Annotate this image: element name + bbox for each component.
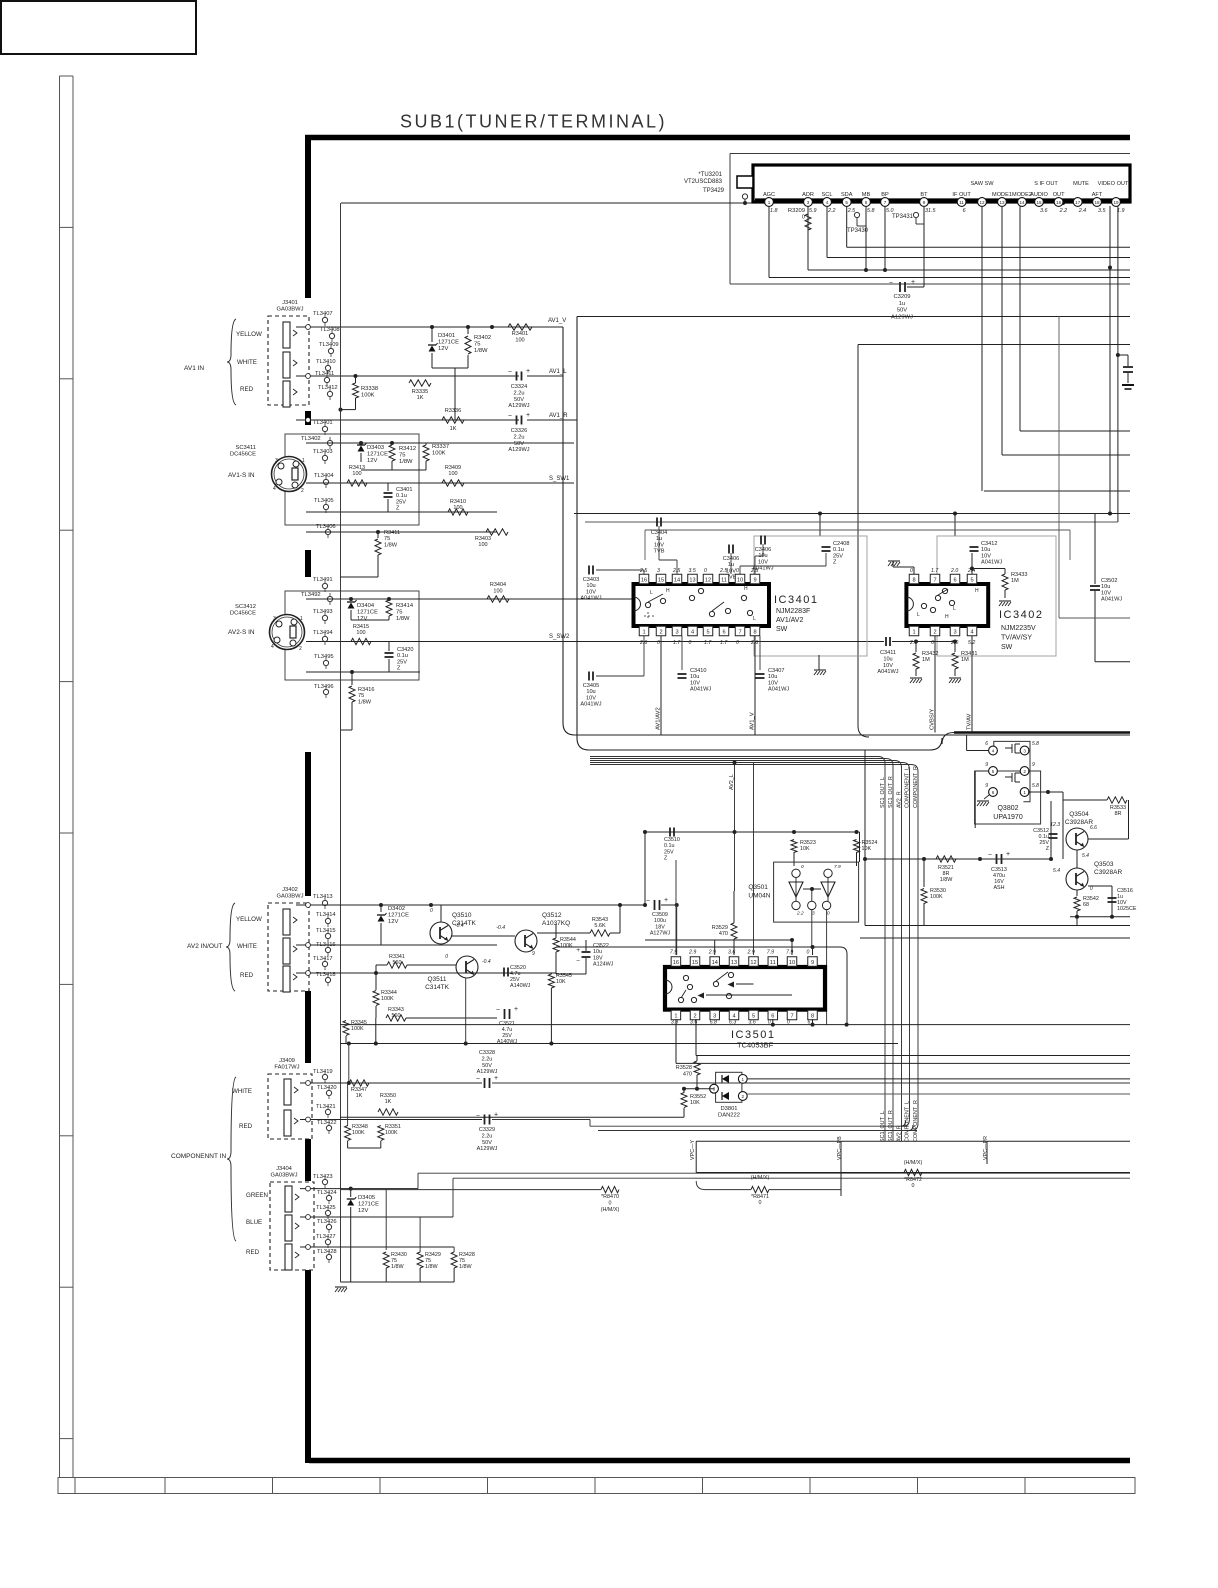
svg-text:10V: 10V (1101, 590, 1111, 596)
svg-text:YELLOW: YELLOW (236, 331, 262, 338)
svg-text:75: 75 (358, 693, 364, 699)
svg-text:IC3402: IC3402 (999, 609, 1043, 621)
svg-text:3: 3 (1023, 748, 1026, 753)
svg-text:1K: 1K (356, 1093, 363, 1099)
svg-text:7: 7 (933, 577, 936, 583)
svg-text:0: 0 (445, 954, 448, 960)
svg-text:TP3431: TP3431 (892, 214, 914, 220)
svg-text:Z: Z (396, 506, 400, 512)
svg-text:1/8W: 1/8W (396, 616, 410, 622)
svg-text:10u: 10u (981, 547, 990, 553)
svg-text:TL3422: TL3422 (317, 1120, 337, 1126)
svg-text:C3509: C3509 (652, 912, 668, 918)
svg-text:10V: 10V (981, 553, 991, 559)
svg-text:TL3404: TL3404 (314, 473, 334, 479)
svg-text:D3401: D3401 (438, 333, 455, 339)
svg-text:2.4: 2.4 (1078, 208, 1087, 214)
svg-text:9: 9 (985, 762, 988, 768)
svg-text:1/8W: 1/8W (459, 1264, 472, 1270)
svg-text:0: 0 (912, 1183, 915, 1189)
svg-text:0.1u: 0.1u (396, 493, 407, 499)
svg-text:5: 5 (992, 769, 995, 774)
svg-text:75: 75 (399, 453, 405, 459)
svg-text:C3411: C3411 (880, 650, 896, 656)
svg-text:WHITE: WHITE (237, 359, 257, 366)
svg-text:12V: 12V (367, 458, 377, 464)
svg-text:Q3512: Q3512 (542, 912, 562, 919)
svg-text:4: 4 (970, 629, 973, 635)
svg-text:2.2: 2.2 (827, 208, 836, 214)
svg-text:12: 12 (750, 960, 756, 966)
svg-text:R3335: R3335 (412, 389, 428, 395)
svg-text:VT2USCD883: VT2USCD883 (684, 179, 723, 185)
svg-text:A129WJ: A129WJ (477, 1069, 498, 1075)
svg-text:C2408: C2408 (833, 541, 849, 547)
svg-text:0: 0 (759, 1200, 762, 1206)
svg-text:VPC—PB: VPC—PB (837, 1136, 843, 1160)
svg-text:16: 16 (673, 960, 679, 966)
svg-text:25V: 25V (397, 659, 407, 665)
svg-text:COMPONENNT IN: COMPONENNT IN (171, 1153, 226, 1160)
svg-text:TL3421: TL3421 (316, 1104, 336, 1110)
svg-text:TP3430: TP3430 (847, 228, 869, 234)
svg-text:13: 13 (731, 960, 737, 966)
svg-text:1K: 1K (450, 426, 457, 432)
svg-text:TL3405: TL3405 (314, 498, 334, 504)
svg-text:12: 12 (705, 577, 711, 583)
svg-text:6: 6 (771, 1013, 774, 1019)
svg-text:COMPONENT_R: COMPONENT_R (913, 1100, 919, 1142)
svg-text:RED: RED (239, 1123, 253, 1130)
svg-text:+: + (526, 368, 530, 375)
svg-text:C3510: C3510 (664, 837, 680, 843)
svg-text:5.8: 5.8 (1032, 783, 1039, 789)
svg-text:0: 0 (827, 911, 830, 917)
svg-text:100K: 100K (432, 451, 446, 457)
svg-text:75: 75 (396, 610, 402, 616)
svg-text:75: 75 (474, 342, 480, 348)
svg-text:SW: SW (1001, 644, 1013, 651)
svg-text:19: 19 (1113, 200, 1119, 205)
svg-text:6: 6 (722, 629, 725, 635)
svg-text:AV2_R: AV2_R (896, 791, 902, 808)
svg-text:100K: 100K (381, 996, 394, 1002)
svg-text:5: 5 (845, 200, 848, 205)
svg-text:1M: 1M (922, 657, 930, 663)
svg-text:R3433: R3433 (1011, 572, 1027, 578)
svg-text:−: − (889, 280, 893, 287)
svg-text:7: 7 (738, 629, 741, 635)
svg-text:A041WJ: A041WJ (877, 669, 898, 675)
svg-text:5: 5 (752, 1013, 755, 1019)
svg-text:2.2u: 2.2u (514, 390, 525, 396)
svg-text:3.5: 3.5 (1098, 208, 1106, 214)
svg-text:1.7: 1.7 (704, 640, 712, 646)
svg-text:12.3: 12.3 (1050, 822, 1060, 828)
svg-text:1271CE: 1271CE (438, 340, 459, 346)
svg-text:−: − (496, 1007, 500, 1014)
svg-text:SC1_OUT_R: SC1_OUT_R (888, 776, 894, 808)
svg-text:1/8W: 1/8W (358, 699, 372, 705)
svg-text:C3324: C3324 (511, 384, 527, 390)
svg-text:*TU3201: *TU3201 (698, 172, 722, 178)
svg-text:100K: 100K (930, 894, 943, 900)
svg-text:R3543: R3543 (592, 917, 608, 923)
svg-text:TL3417: TL3417 (313, 956, 333, 962)
svg-text:SUB1(TUNER/TERMINAL): SUB1(TUNER/TERMINAL) (400, 112, 667, 132)
svg-text:2.5: 2.5 (672, 568, 680, 574)
svg-text:2: 2 (933, 629, 936, 635)
svg-text:J3402: J3402 (282, 887, 298, 893)
svg-text:10V: 10V (690, 680, 700, 686)
svg-text:50V: 50V (482, 1140, 492, 1146)
svg-text:12V: 12V (358, 1208, 368, 1214)
svg-text:Q3510: Q3510 (452, 912, 472, 919)
svg-text:AV1-S IN: AV1-S IN (228, 472, 255, 479)
svg-text:2.5: 2.5 (750, 568, 758, 574)
svg-text:SAW SW: SAW SW (970, 181, 994, 187)
svg-text:0: 0 (802, 215, 805, 221)
svg-text:10u: 10u (586, 583, 595, 589)
svg-text:BT: BT (920, 192, 928, 198)
svg-text:9: 9 (1032, 762, 1035, 768)
svg-text:+: + (911, 279, 915, 286)
svg-text:TL3494: TL3494 (313, 630, 333, 636)
svg-text:D3404: D3404 (357, 603, 375, 609)
svg-text:R3432: R3432 (922, 651, 938, 657)
svg-text:2.6: 2.6 (639, 640, 647, 646)
svg-text:CVBS/Y: CVBS/Y (930, 709, 936, 730)
svg-text:1M: 1M (961, 657, 969, 663)
svg-text:10u: 10u (883, 656, 892, 662)
svg-text:A129WJ: A129WJ (477, 1146, 498, 1152)
svg-text:12V: 12V (357, 616, 367, 622)
svg-text:25V: 25V (396, 499, 406, 505)
svg-text:TV/AV: TV/AV (967, 714, 973, 730)
svg-text:TL3491: TL3491 (313, 577, 333, 583)
svg-text:TL3496: TL3496 (314, 684, 334, 690)
svg-text:AV1 IN: AV1 IN (184, 365, 204, 372)
svg-text:1: 1 (1023, 790, 1026, 795)
svg-text:5: 5 (706, 629, 709, 635)
svg-text:470: 470 (719, 931, 728, 937)
svg-text:1271CE: 1271CE (358, 1202, 379, 1208)
svg-text:TL3423: TL3423 (313, 1174, 333, 1180)
svg-text:8: 8 (753, 629, 756, 635)
svg-text:R3552: R3552 (690, 1094, 706, 1100)
svg-text:0: 0 (801, 864, 804, 870)
svg-text:10: 10 (737, 577, 743, 583)
svg-text:75: 75 (384, 536, 390, 542)
svg-text:MODE2: MODE2 (1012, 192, 1032, 198)
svg-text:TL3425: TL3425 (316, 1205, 336, 1211)
svg-text:VPC—PR: VPC—PR (983, 1136, 989, 1160)
svg-text:A129WJ: A129WJ (508, 447, 529, 453)
svg-text:R3404: R3404 (490, 582, 506, 588)
svg-text:R3412: R3412 (399, 446, 416, 452)
svg-text:0: 0 (657, 640, 660, 646)
svg-text:TP3429: TP3429 (703, 188, 725, 194)
svg-text:100: 100 (478, 542, 487, 548)
svg-text:10V: 10V (586, 695, 596, 701)
svg-text:10u: 10u (768, 674, 777, 680)
svg-text:AV2-S IN: AV2-S IN (228, 629, 255, 636)
svg-text:11: 11 (959, 200, 964, 205)
svg-text:SC1_OUT_L: SC1_OUT_L (880, 777, 886, 808)
svg-text:3: 3 (807, 200, 810, 205)
svg-text:5.4: 5.4 (1082, 853, 1089, 859)
svg-text:4: 4 (992, 748, 995, 753)
svg-text:R3416: R3416 (358, 687, 374, 693)
svg-text:A129WJ: A129WJ (891, 314, 913, 320)
svg-text:L: L (753, 616, 756, 622)
svg-text:2.5: 2.5 (719, 568, 727, 574)
svg-text:3.6: 3.6 (1040, 208, 1048, 214)
svg-text:H: H (975, 588, 979, 594)
svg-text:GA03BWJ: GA03BWJ (276, 307, 303, 313)
svg-text:R3401: R3401 (512, 331, 528, 337)
svg-text:10V: 10V (883, 663, 893, 669)
svg-text:C3502: C3502 (1101, 578, 1117, 584)
svg-text:H: H (744, 586, 748, 592)
svg-text:0: 0 (807, 950, 810, 956)
svg-text:MB: MB (862, 192, 871, 198)
svg-text:D3403: D3403 (367, 445, 384, 451)
svg-text:RED: RED (240, 386, 254, 393)
svg-text:+: + (526, 412, 530, 419)
svg-text:1/8W: 1/8W (940, 877, 953, 883)
svg-text:AV2_R: AV2_R (896, 1125, 902, 1142)
svg-text:2.2: 2.2 (796, 911, 804, 917)
svg-text:0: 0 (689, 640, 692, 646)
svg-text:A041WJ: A041WJ (690, 687, 711, 693)
svg-text:11: 11 (721, 577, 727, 583)
svg-text:AGC: AGC (763, 192, 775, 198)
svg-text:S_SW1: S_SW1 (549, 476, 570, 482)
svg-text:A140WJ: A140WJ (510, 983, 531, 989)
svg-text:TL3415: TL3415 (316, 928, 336, 934)
svg-text:0.1u: 0.1u (397, 653, 408, 659)
svg-text:J3409: J3409 (279, 1058, 295, 1064)
svg-text:Z: Z (397, 666, 401, 672)
svg-text:10V: 10V (758, 559, 768, 565)
svg-text:12: 12 (979, 200, 985, 205)
svg-text:AV1_L: AV1_L (549, 369, 567, 375)
svg-text:J3404: J3404 (276, 1166, 293, 1172)
svg-text:R3336: R3336 (445, 408, 461, 414)
svg-text:UPA1970: UPA1970 (993, 814, 1023, 821)
svg-text:R3414: R3414 (396, 603, 414, 609)
svg-text:TL3414: TL3414 (316, 912, 336, 918)
svg-text:DC456CE: DC456CE (230, 611, 256, 617)
svg-text:1K: 1K (385, 1099, 392, 1105)
svg-text:560: 560 (393, 960, 402, 966)
svg-text:RED: RED (246, 1249, 260, 1256)
svg-text:3: 3 (273, 616, 276, 622)
svg-text:5.8: 5.8 (867, 208, 875, 214)
svg-text:16: 16 (1056, 200, 1062, 205)
svg-text:TL3406: TL3406 (316, 524, 336, 530)
svg-text:2.2u: 2.2u (482, 1133, 493, 1139)
svg-text:C3405: C3405 (583, 683, 599, 689)
svg-text:DC456CE: DC456CE (230, 452, 256, 458)
svg-text:-0.4: -0.4 (455, 923, 464, 929)
svg-text:6: 6 (963, 208, 966, 214)
svg-text:D3801: D3801 (720, 1106, 737, 1112)
svg-text:C3328: C3328 (479, 1050, 495, 1056)
svg-text:15: 15 (1036, 200, 1042, 205)
svg-text:R3431: R3431 (961, 651, 977, 657)
svg-text:10K: 10K (862, 846, 872, 852)
svg-text:1/8W: 1/8W (425, 1264, 438, 1270)
svg-text:NJM2283F: NJM2283F (776, 608, 810, 615)
svg-text:1.8: 1.8 (770, 208, 778, 214)
svg-text:1: 1 (768, 200, 771, 205)
svg-text:10K: 10K (690, 1100, 700, 1106)
svg-text:AV1_V: AV1_V (750, 712, 756, 730)
svg-text:0: 0 (736, 568, 739, 574)
svg-text:GA03BWJ: GA03BWJ (276, 894, 303, 900)
svg-text:9: 9 (532, 951, 535, 957)
svg-text:A041WJ: A041WJ (580, 702, 601, 708)
svg-text:1.7: 1.7 (673, 640, 681, 646)
svg-text:7.9: 7.9 (767, 950, 774, 956)
svg-text:2.0: 2.0 (950, 568, 958, 574)
svg-text:AV2_L: AV2_L (729, 774, 735, 790)
svg-text:68: 68 (1083, 902, 1089, 908)
svg-text:6: 6 (992, 790, 995, 795)
svg-text:8: 8 (912, 577, 915, 583)
svg-text:7.9: 7.9 (834, 864, 841, 870)
svg-text:7: 7 (790, 1013, 793, 1019)
svg-text:SW: SW (776, 626, 788, 633)
svg-text:Q3802: Q3802 (997, 805, 1018, 812)
svg-text:10K: 10K (800, 846, 810, 852)
svg-text:MODE1: MODE1 (992, 192, 1012, 198)
svg-text:10u: 10u (690, 674, 699, 680)
svg-text:1/8W: 1/8W (399, 459, 413, 465)
svg-text:A124WJ: A124WJ (593, 962, 614, 968)
svg-text:TL3403: TL3403 (313, 449, 333, 455)
svg-text:1: 1 (912, 629, 915, 635)
svg-text:1/8W: 1/8W (474, 348, 488, 354)
svg-text:A140WJ: A140WJ (497, 1039, 518, 1045)
svg-text:ADR: ADR (802, 192, 814, 198)
svg-text:18V: 18V (593, 955, 603, 961)
svg-text:C3403: C3403 (583, 577, 599, 583)
svg-text:1: 1 (674, 1013, 677, 1019)
svg-text:100: 100 (515, 337, 524, 343)
svg-text:TL3407: TL3407 (313, 311, 333, 317)
svg-text:8R: 8R (1114, 811, 1121, 817)
svg-text:BP: BP (881, 192, 889, 198)
svg-text:1271CE: 1271CE (388, 913, 409, 919)
svg-text:100u: 100u (654, 918, 666, 924)
svg-text:4: 4 (691, 629, 694, 635)
svg-text:0: 0 (736, 640, 739, 646)
svg-text:-0.4: -0.4 (482, 959, 491, 965)
svg-text:SC3412: SC3412 (235, 604, 256, 610)
svg-text:D3405: D3405 (358, 1195, 375, 1201)
svg-text:SDA: SDA (841, 192, 853, 198)
svg-text:1: 1 (302, 458, 305, 464)
svg-text:COMPONENT_L: COMPONENT_L (904, 767, 910, 808)
svg-text:MUTE: MUTE (1073, 181, 1089, 187)
svg-text:9: 9 (923, 200, 926, 205)
svg-text:1: 1 (742, 1077, 745, 1082)
svg-text:A041WJ: A041WJ (580, 596, 601, 602)
svg-text:VIDEO OUT: VIDEO OUT (1098, 181, 1129, 187)
svg-text:50V: 50V (482, 1063, 492, 1069)
svg-text:1271CE: 1271CE (367, 452, 388, 458)
svg-text:H: H (666, 588, 670, 594)
svg-text:0: 0 (430, 908, 433, 914)
svg-text:10V: 10V (768, 680, 778, 686)
svg-text:2: 2 (742, 1094, 745, 1099)
svg-text:0: 0 (910, 568, 913, 574)
svg-text:−: − (508, 369, 512, 376)
svg-text:(H/M/X): (H/M/X) (601, 1207, 620, 1213)
svg-text:2: 2 (299, 646, 302, 652)
svg-text:2.2: 2.2 (1059, 208, 1068, 214)
svg-text:AV1_V: AV1_V (548, 318, 566, 324)
svg-text:1u: 1u (899, 301, 905, 307)
svg-text:L: L (650, 590, 653, 596)
svg-text:Q3511: Q3511 (427, 976, 446, 983)
svg-text:TL3410: TL3410 (316, 359, 336, 365)
svg-text:9: 9 (753, 577, 756, 583)
svg-text:−: − (476, 1113, 480, 1120)
svg-text:TL3424: TL3424 (317, 1190, 337, 1196)
svg-text:A041WJ: A041WJ (981, 560, 1002, 566)
svg-text:−: − (576, 958, 580, 965)
svg-text:100: 100 (493, 588, 502, 594)
svg-text:TL3492: TL3492 (301, 592, 321, 598)
svg-text:8: 8 (811, 1013, 814, 1019)
svg-text:+: + (664, 897, 668, 904)
svg-text:TL3408: TL3408 (320, 327, 340, 333)
svg-text:2.5: 2.5 (639, 568, 647, 574)
svg-text:100: 100 (356, 630, 365, 636)
svg-text:1271CE: 1271CE (357, 610, 378, 616)
svg-text:1/8W: 1/8W (384, 542, 398, 548)
svg-text:AV1_R: AV1_R (549, 413, 568, 419)
svg-text:9: 9 (985, 783, 988, 789)
svg-text:2: 2 (659, 629, 662, 635)
svg-text:15: 15 (692, 960, 698, 966)
svg-text:5: 5 (970, 577, 973, 583)
svg-text:+: + (576, 947, 580, 954)
svg-text:50V: 50V (897, 308, 907, 314)
svg-text:2: 2 (693, 1013, 696, 1019)
svg-text:+: + (1006, 851, 1010, 858)
svg-text:R3528: R3528 (676, 1065, 692, 1071)
svg-text:A127WJ: A127WJ (650, 931, 671, 937)
svg-text:4: 4 (271, 644, 274, 650)
svg-text:0: 0 (1090, 886, 1093, 892)
svg-text:−: − (476, 1076, 480, 1083)
svg-text:14: 14 (712, 960, 718, 966)
svg-text:18: 18 (1094, 200, 1100, 205)
svg-text:31.5: 31.5 (925, 208, 936, 214)
svg-text:470: 470 (683, 1071, 692, 1077)
svg-text:GREEN: GREEN (246, 1192, 268, 1199)
svg-text:4: 4 (732, 1013, 735, 1019)
svg-text:R3209: R3209 (788, 208, 805, 214)
svg-text:A041WJ: A041WJ (1101, 597, 1122, 603)
svg-text:D3402: D3402 (388, 906, 405, 912)
svg-text:+: + (514, 1006, 518, 1013)
